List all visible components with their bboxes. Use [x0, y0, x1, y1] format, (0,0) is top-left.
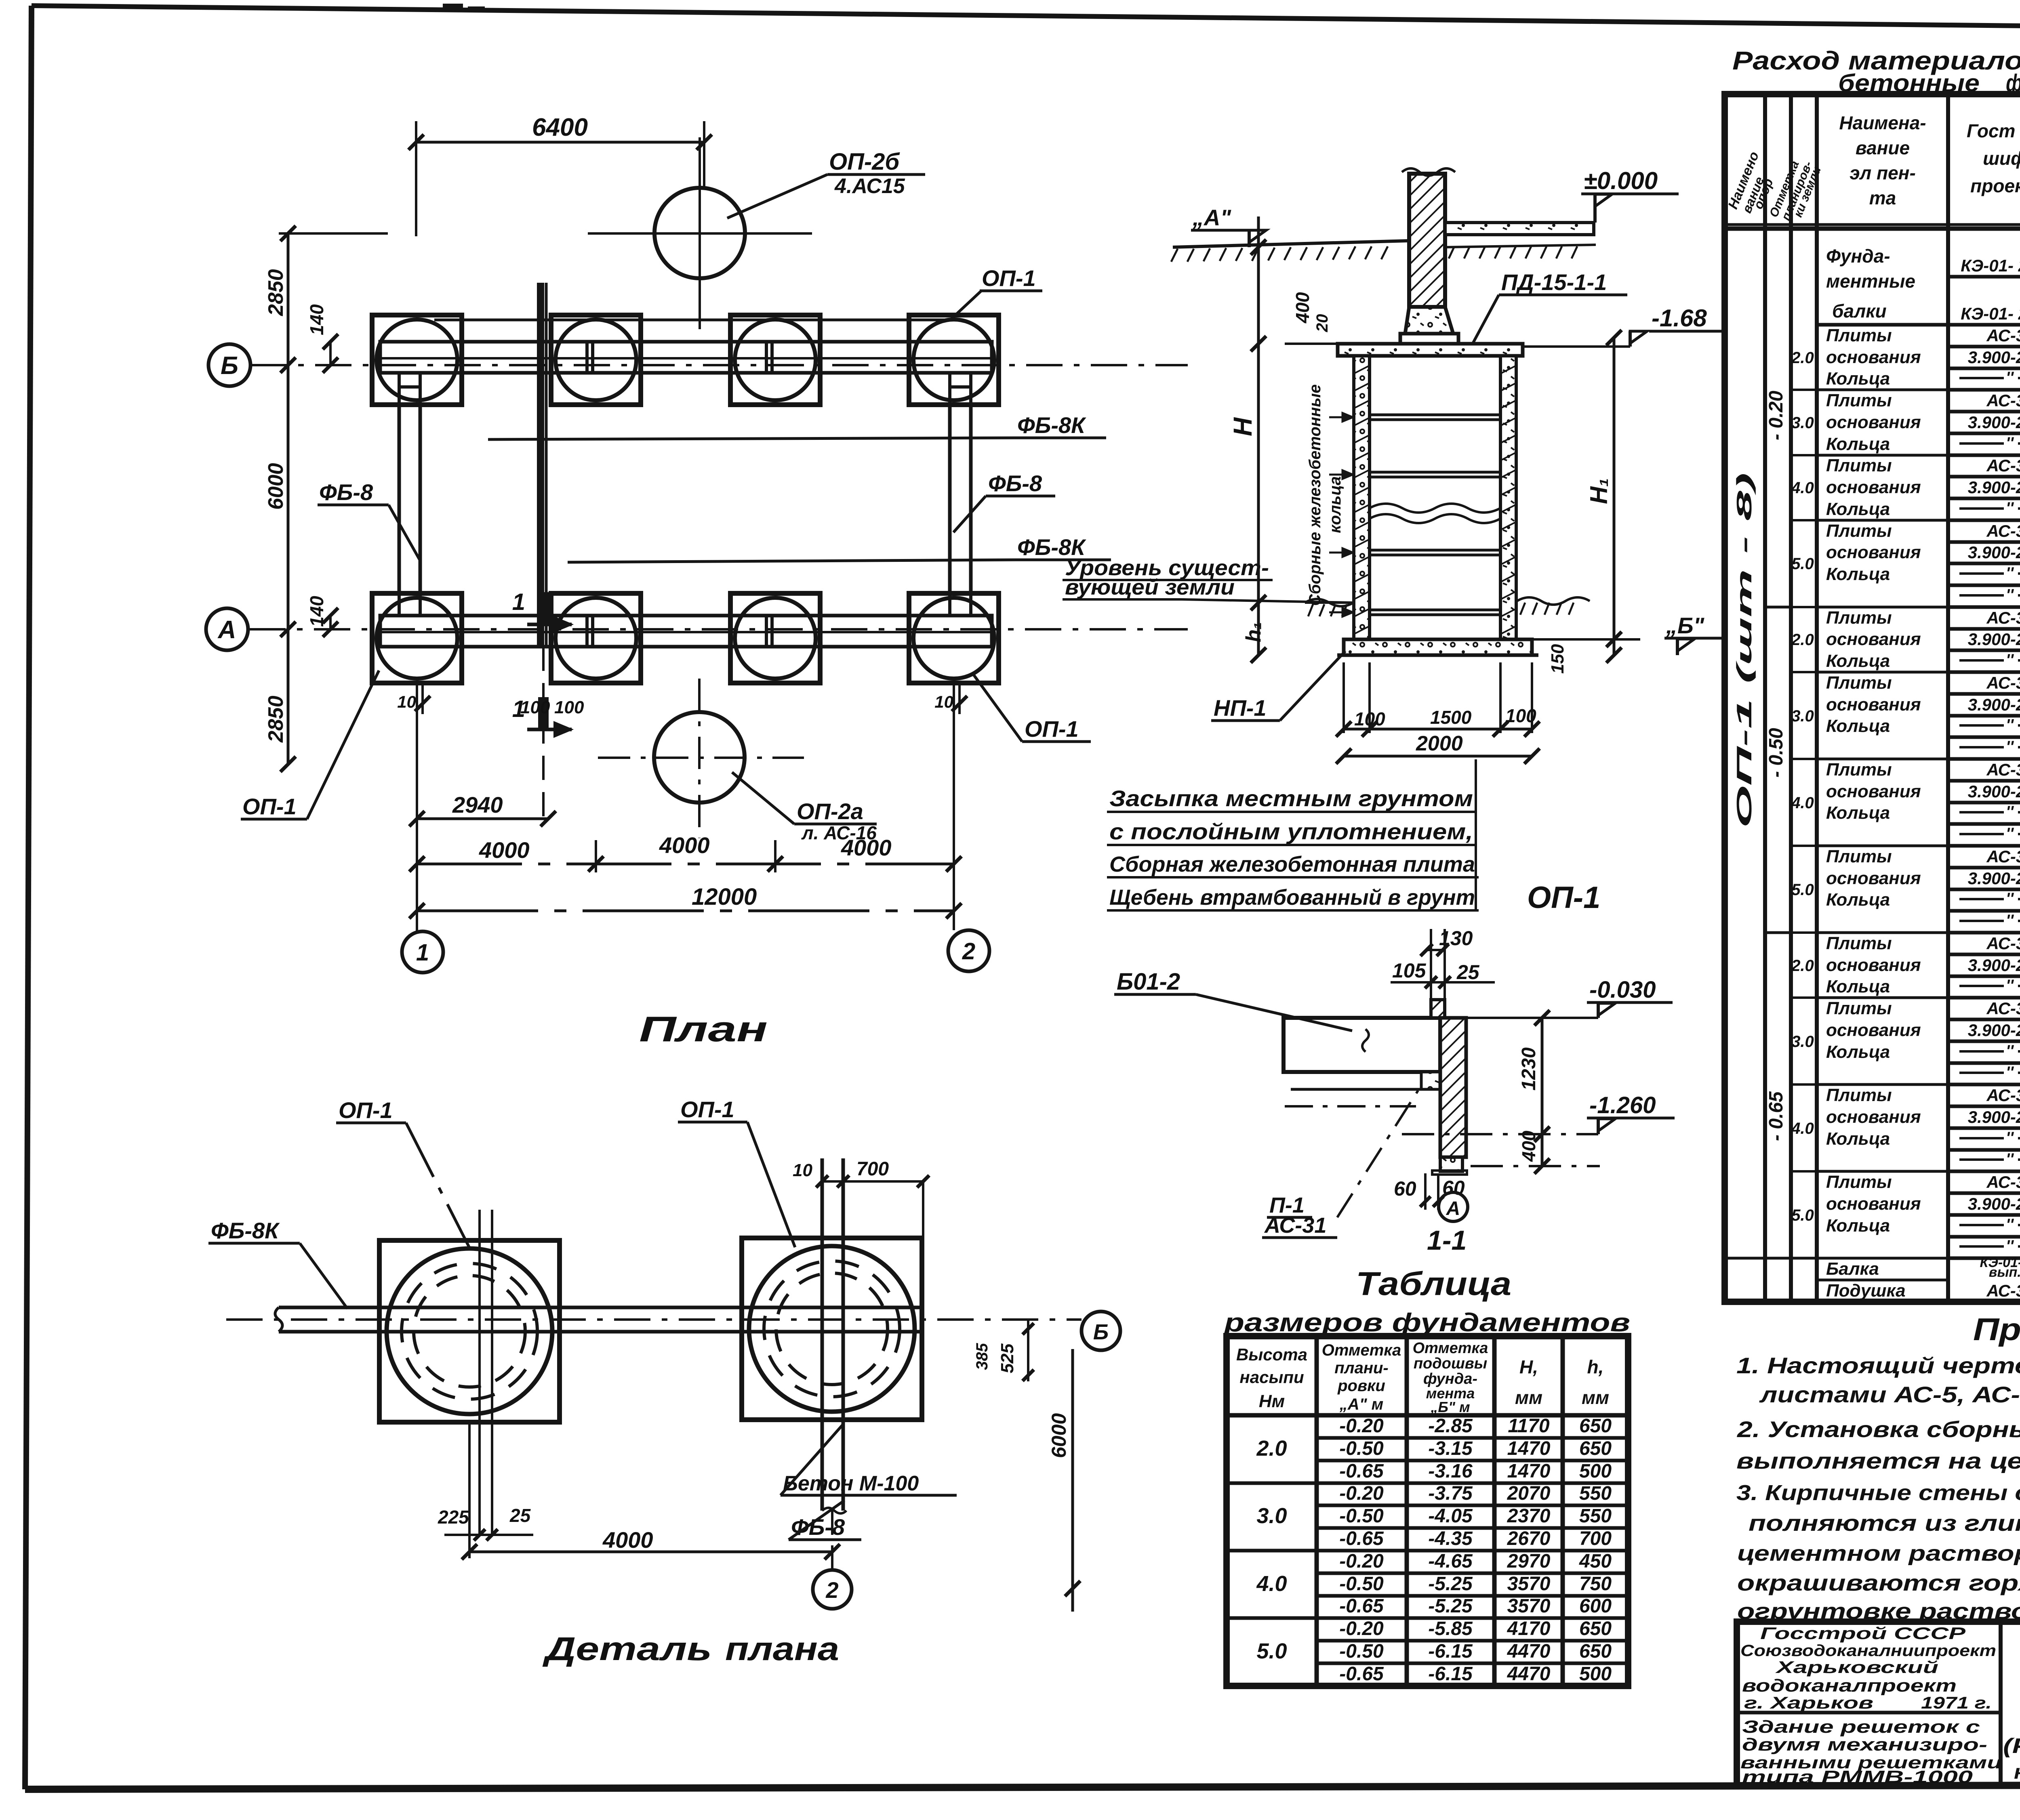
svg-text:385: 385 — [973, 1343, 991, 1370]
svg-text:'': '' — [2006, 1237, 2014, 1255]
svg-text:140: 140 — [306, 304, 327, 335]
svg-text:'': '' — [2006, 1150, 2014, 1168]
section bottom dims — [1342, 662, 1345, 733]
detail 1-1: dim 400 — [1541, 1134, 1544, 1166]
svg-text:1: 1 — [512, 589, 525, 615]
svg-text:1170: 1170 — [1508, 1415, 1550, 1437]
axis mark 2 detail — [813, 1570, 852, 1609]
svg-text:1. Настоящий чертеж расстатрив: 1. Настоящий чертеж расстатривать совмес… — [1736, 1353, 2020, 1378]
svg-text:'': '' — [2006, 1042, 2014, 1060]
svg-text:-4.65: -4.65 — [1428, 1551, 1473, 1572]
svg-text:окрашиваются горячим битумом: окрашиваются горячим битумом за два раза — [1737, 1570, 2020, 1595]
svg-text:ОП-1: ОП-1 — [982, 265, 1036, 291]
svg-text:основания: основания — [1826, 412, 1921, 432]
svg-text:АС-31: АС-31 — [1986, 847, 2020, 866]
svg-text:10: 10 — [397, 692, 416, 711]
svg-text:4000: 4000 — [841, 835, 892, 860]
svg-text:листами АС-5, АС-6.: листами АС-5, АС-6. — [1759, 1382, 2020, 1407]
svg-text:с послойным уплотнением,: с послойным уплотнением, — [1109, 819, 1473, 844]
svg-text:Кольца: Кольца — [1826, 890, 1890, 910]
svg-text:650: 650 — [1579, 1641, 1612, 1662]
beam B01-2 vertical — [537, 283, 544, 647]
svg-text:- 0.20: - 0.20 — [1765, 391, 1787, 440]
section: break squiggle — [1370, 504, 1500, 513]
svg-text:-1.260: -1.260 — [1589, 1092, 1656, 1118]
svg-text:Наимена-: Наимена- — [1839, 112, 1926, 133]
svg-text:Плиты: Плиты — [1826, 847, 1892, 866]
title block — [1737, 1622, 2020, 1785]
svg-text:ОП-1: ОП-1 — [242, 794, 297, 819]
svg-text:140: 140 — [306, 596, 327, 627]
svg-text:700: 700 — [856, 1158, 889, 1180]
svg-text:Плиты: Плиты — [1826, 673, 1892, 693]
dim 2940 — [417, 818, 548, 820]
svg-text:„А" м: „А" м — [1339, 1395, 1384, 1413]
svg-text:'': '' — [2006, 890, 2014, 908]
dim 4000 x3 — [417, 863, 954, 866]
svg-text:650: 650 — [1579, 1438, 1612, 1459]
svg-text:мм: мм — [1515, 1387, 1542, 1408]
svg-text:водоканалпроект: водоканалпроект — [1742, 1676, 1957, 1696]
svg-text:4000: 4000 — [479, 837, 530, 863]
svg-text:АС-31: АС-31 — [1986, 521, 2020, 540]
svg-text:'': '' — [2006, 1129, 2014, 1147]
svg-text:основания: основания — [1826, 542, 1921, 562]
svg-text:'': '' — [2006, 1216, 2014, 1234]
dim 4000 detail — [468, 1424, 471, 1558]
svg-text:-6.15: -6.15 — [1428, 1663, 1473, 1685]
svg-text:вующей земли: вующей земли — [1065, 575, 1235, 599]
svg-text:АС-31: АС-31 — [1986, 391, 2020, 410]
svg-text:АС-31: АС-31 — [1986, 326, 2020, 345]
svg-text:500: 500 — [1579, 1461, 1612, 1482]
svg-text:2940: 2940 — [452, 792, 503, 818]
svg-text:А: А — [1446, 1198, 1460, 1219]
svg-text:та: та — [1869, 187, 1896, 208]
svg-text:основания: основания — [1826, 1107, 1921, 1127]
svg-text:'': '' — [2006, 803, 2014, 821]
svg-text:Здание решеток с: Здание решеток с — [1742, 1717, 1980, 1737]
svg-text:Нм: Нм — [1259, 1391, 1285, 1411]
svg-text:105: 105 — [1392, 959, 1427, 982]
svg-text:-0.20: -0.20 — [1339, 1618, 1384, 1639]
svg-text:5.0: 5.0 — [1791, 555, 1814, 573]
svg-text:основания: основания — [1826, 955, 1921, 975]
detail plan: S1 centre lines — [478, 1210, 481, 1535]
svg-text:полняются из глиняного кирпича: полняются из глиняного кирпича марки М-7… — [1749, 1510, 2020, 1536]
svg-text:- 0.50: - 0.50 — [1765, 728, 1787, 778]
svg-text:КЭ-01- 238.1: КЭ-01- 238.1 — [1961, 256, 2020, 275]
svg-text:эл пен-: эл пен- — [1850, 162, 1916, 183]
svg-text:-5.85: -5.85 — [1428, 1618, 1473, 1639]
svg-text:ОП-2а: ОП-2а — [797, 799, 863, 824]
svg-text:Кольца: Кольца — [1826, 1042, 1890, 1062]
svg-text:-3.16: -3.16 — [1428, 1461, 1473, 1482]
svg-text:Союзводоканалниипроект: Союзводоканалниипроект — [1740, 1642, 1996, 1660]
detail 1-1: slab — [1284, 1018, 1440, 1072]
svg-text:Плиты: Плиты — [1826, 391, 1892, 410]
dim 10 left — [421, 683, 424, 714]
svg-text:3.900-2.8.5: 3.900-2.8.5 — [1968, 1108, 2020, 1126]
dim 6000 — [287, 365, 290, 629]
svg-text:1230: 1230 — [1518, 1047, 1540, 1091]
detail plan squares — [379, 1240, 560, 1422]
svg-text:Плиты: Плиты — [1826, 998, 1892, 1018]
dim 6400 — [416, 141, 704, 144]
svg-text:Кольца: Кольца — [1826, 977, 1890, 996]
detail plan: horizontal beam — [279, 1306, 923, 1309]
svg-text:АС-31: АС-31 — [1986, 934, 2020, 953]
svg-text:Плиты: Плиты — [1826, 456, 1892, 475]
svg-text:3.0: 3.0 — [1791, 1033, 1814, 1051]
svg-text:100: 100 — [1354, 708, 1385, 729]
svg-text:Высота: Высота — [1236, 1345, 1307, 1364]
section: top slab PD-15-1-1 — [1338, 344, 1523, 356]
svg-text:-0.65: -0.65 — [1339, 1528, 1384, 1549]
svg-text:'': '' — [2006, 564, 2014, 582]
svg-text:-3.15: -3.15 — [1428, 1438, 1473, 1459]
svg-text:1500: 1500 — [1430, 707, 1472, 728]
svg-text:100: 100 — [520, 698, 550, 717]
svg-text:3.900-2.8.5: 3.900-2.8.5 — [1968, 1021, 2020, 1040]
svg-text:2.0: 2.0 — [1791, 631, 1814, 649]
svg-text:4.0: 4.0 — [1256, 1572, 1287, 1596]
svg-text:'': '' — [2006, 912, 2014, 929]
svg-text:3.0: 3.0 — [1791, 414, 1814, 432]
svg-text:Кольца: Кольца — [1826, 716, 1890, 736]
svg-text:12000: 12000 — [692, 884, 757, 910]
svg-text:ОП-1 (шт - 8): ОП-1 (шт - 8) — [1733, 473, 1756, 828]
axis mark A — [206, 608, 248, 650]
detail 1-1: hatched wall — [1431, 1000, 1445, 1018]
svg-text:План: План — [639, 1009, 768, 1049]
svg-text:Кольца: Кольца — [1826, 803, 1890, 823]
svg-text:3.900-2.8.5: 3.900-2.8.5 — [1968, 782, 2020, 801]
svg-text:-0.65: -0.65 — [1339, 1461, 1384, 1482]
svg-text:Щебень втрамбованный в грунт: Щебень втрамбованный в грунт — [1109, 885, 1475, 910]
svg-text:-5.25: -5.25 — [1428, 1573, 1473, 1595]
svg-text:КЭ-01- 238.1: КЭ-01- 238.1 — [1961, 304, 2020, 323]
svg-text:Н,: Н, — [1519, 1356, 1538, 1377]
size table grid — [1227, 1336, 1628, 1686]
svg-text:Плиты: Плиты — [1826, 933, 1892, 953]
svg-text:-0.50: -0.50 — [1339, 1641, 1384, 1662]
svg-text:60: 60 — [1394, 1177, 1416, 1200]
svg-text:кольца: кольца — [1326, 476, 1344, 533]
svg-text:основания: основания — [1826, 868, 1921, 888]
svg-text:-2.85: -2.85 — [1428, 1415, 1473, 1437]
svg-text:-5.25: -5.25 — [1428, 1595, 1473, 1617]
svg-text:h,: h, — [1587, 1356, 1604, 1377]
svg-text:ровки: ровки — [1337, 1377, 1385, 1395]
section: left dim chain H — [1257, 216, 1260, 655]
svg-text:'': '' — [2006, 651, 2014, 669]
svg-text:'': '' — [2006, 434, 2014, 452]
axis mark B detail — [1082, 1311, 1120, 1350]
svg-text:-0.50: -0.50 — [1339, 1573, 1384, 1595]
svg-text:основания: основания — [1826, 1020, 1921, 1040]
detail 1-1: view mark A — [1439, 1192, 1468, 1221]
svg-text:2370: 2370 — [1507, 1505, 1551, 1527]
svg-text:проекта: проекта — [1970, 175, 2020, 196]
svg-text:(Расположение здания: (Расположение здания — [2003, 1734, 2020, 1758]
svg-text:-4.35: -4.35 — [1428, 1528, 1473, 1549]
axis mark 2 — [948, 930, 989, 971]
svg-text:плана: плана — [725, 1631, 839, 1667]
svg-text:„Б": „Б" — [1666, 613, 1705, 638]
svg-text:4000: 4000 — [659, 832, 710, 858]
right dim chain H1 — [1613, 338, 1616, 655]
svg-text:3.900-2.8.5: 3.900-2.8.5 — [1968, 1194, 2020, 1213]
svg-text:2850: 2850 — [264, 269, 288, 316]
svg-text:основания: основания — [1826, 347, 1921, 367]
svg-text:основания: основания — [1826, 477, 1921, 497]
svg-text:500: 500 — [1579, 1663, 1612, 1685]
svg-text:НП-1: НП-1 — [1214, 695, 1267, 721]
svg-text:ФБ-8К: ФБ-8К — [211, 1218, 280, 1243]
svg-text:1470: 1470 — [1507, 1438, 1551, 1459]
svg-text:3.900-2.8.5: 3.900-2.8.5 — [1968, 543, 2020, 562]
svg-text:2: 2 — [825, 1577, 838, 1603]
svg-text:Отметка: Отметка — [1413, 1340, 1488, 1357]
svg-text:550: 550 — [1579, 1483, 1612, 1504]
svg-text:Гост или: Гост или — [1967, 120, 2020, 141]
svg-text:6400: 6400 — [532, 113, 588, 141]
section: hatched column — [1409, 174, 1445, 307]
svg-text:Фунда-: Фунда- — [1826, 246, 1890, 267]
svg-text:Сборные железобетонные: Сборные железобетонные — [1306, 384, 1324, 606]
svg-text:АС-31: АС-31 — [1986, 673, 2020, 692]
detail 1-1: P-1 pad — [1421, 1072, 1440, 1089]
svg-text:150: 150 — [1548, 644, 1568, 674]
svg-text:3570: 3570 — [1507, 1573, 1551, 1595]
svg-text:А: А — [217, 616, 236, 644]
svg-text:25: 25 — [1456, 961, 1480, 984]
svg-text:-0.20: -0.20 — [1339, 1483, 1384, 1504]
svg-text:10: 10 — [793, 1160, 812, 1180]
svg-text:3.0: 3.0 — [1791, 707, 1814, 725]
svg-text:Плиты: Плиты — [1826, 521, 1892, 541]
detail 1-1: dim 1230 — [1541, 1018, 1544, 1134]
svg-text:шифр: шифр — [1983, 148, 2020, 169]
svg-text:550: 550 — [1579, 1505, 1612, 1527]
detail 1-1: layers — [1293, 1071, 1421, 1074]
svg-text:ФБ-8: ФБ-8 — [988, 471, 1042, 496]
dim 12000 — [417, 910, 954, 912]
svg-text:ОП-1: ОП-1 — [1527, 881, 1600, 915]
svg-text:Кольца: Кольца — [1826, 564, 1890, 584]
svg-text:2850: 2850 — [264, 696, 288, 743]
svg-text:'': '' — [2006, 1063, 2014, 1081]
svg-text:АС-31: АС-31 — [1986, 1281, 2020, 1300]
svg-text:1-1: 1-1 — [1427, 1225, 1467, 1256]
svg-text:основания: основания — [1826, 695, 1921, 715]
svg-text:-0.20: -0.20 — [1339, 1415, 1384, 1437]
svg-text:насыпи: насыпи — [1239, 1368, 1304, 1387]
svg-text:'': '' — [2006, 825, 2014, 843]
svg-text:Примечания:: Примечания: — [1973, 1311, 2020, 1347]
svg-text:ОП-1: ОП-1 — [1025, 716, 1079, 742]
svg-text:Таблица: Таблица — [1356, 1265, 1511, 1302]
svg-text:5.0: 5.0 — [1791, 1206, 1814, 1224]
svg-text:10: 10 — [934, 692, 953, 711]
svg-text:2970: 2970 — [1507, 1551, 1551, 1572]
svg-text:Б01-2: Б01-2 — [1117, 969, 1180, 995]
svg-text:4470: 4470 — [1507, 1663, 1551, 1685]
svg-text:- 0.65: - 0.65 — [1765, 1091, 1787, 1141]
svg-text:Балка: Балка — [1826, 1259, 1879, 1279]
svg-text:3.900-2.8.5: 3.900-2.8.5 — [1968, 869, 2020, 888]
dim 140 bottom — [329, 616, 332, 629]
svg-text:650: 650 — [1579, 1618, 1612, 1639]
svg-text:1470: 1470 — [1507, 1461, 1551, 1482]
dim 2850 top — [287, 233, 290, 365]
svg-text:3.900-2.8.5: 3.900-2.8.5 — [1968, 478, 2020, 497]
svg-text:-4.05: -4.05 — [1428, 1505, 1473, 1527]
svg-text:4470: 4470 — [1507, 1641, 1551, 1662]
svg-text:Сборная железобетонная плита: Сборная железобетонная плита — [1109, 852, 1475, 876]
svg-text:Кольца: Кольца — [1826, 1216, 1890, 1236]
svg-text:Деталь: Деталь — [542, 1631, 712, 1667]
section: bottom slab NP-1 — [1344, 639, 1532, 655]
svg-text:400: 400 — [1518, 1131, 1539, 1162]
svg-text:вание: вание — [1856, 137, 1910, 158]
svg-text:двумя механизиро-: двумя механизиро- — [1742, 1735, 1987, 1755]
svg-text:-1.68: -1.68 — [1652, 305, 1707, 332]
svg-text:-0.65: -0.65 — [1339, 1663, 1384, 1685]
svg-text:25: 25 — [509, 1505, 531, 1526]
svg-text:525: 525 — [997, 1343, 1017, 1373]
svg-text:-0.20: -0.20 — [1339, 1551, 1384, 1572]
svg-text:2.0: 2.0 — [1791, 349, 1814, 367]
svg-text:АС-31: АС-31 — [1986, 608, 2020, 627]
svg-text:подошвы: подошвы — [1414, 1355, 1487, 1372]
svg-text:'': '' — [2006, 499, 2014, 517]
svg-text:-6.15: -6.15 — [1428, 1641, 1473, 1662]
svg-text:'': '' — [2006, 369, 2014, 387]
svg-text:Плиты: Плиты — [1826, 608, 1892, 628]
svg-text:'': '' — [2006, 586, 2014, 604]
svg-text:20: 20 — [1313, 314, 1331, 333]
svg-text:600: 600 — [1579, 1595, 1612, 1617]
svg-text:-0.65: -0.65 — [1339, 1595, 1384, 1617]
svg-text:ОП-2б: ОП-2б — [829, 149, 900, 175]
dim 140 top — [329, 342, 332, 365]
svg-text:размеров фундаментов: размеров фундаментов — [1223, 1308, 1630, 1337]
svg-text:100: 100 — [554, 698, 584, 717]
svg-text:2.0: 2.0 — [1256, 1436, 1287, 1461]
plan view: foundation plan — [372, 315, 462, 405]
svg-text:Кольца: Кольца — [1826, 651, 1890, 671]
svg-text:100: 100 — [1505, 705, 1536, 726]
column foot — [1405, 307, 1453, 334]
svg-text:типа РММВ-1000: типа РММВ-1000 — [1742, 1767, 1973, 1787]
svg-text:Кольца: Кольца — [1826, 369, 1890, 389]
svg-text:225: 225 — [438, 1507, 469, 1528]
svg-text:Плиты: Плиты — [1826, 1172, 1892, 1192]
svg-text:±0.000: ±0.000 — [1584, 167, 1658, 194]
svg-text:основания: основания — [1826, 629, 1921, 649]
svg-text:h₁: h₁ — [1242, 622, 1265, 642]
svg-text:Засыпка местным грунтом: Засыпка местным грунтом — [1109, 786, 1473, 811]
svg-text:2000: 2000 — [1416, 732, 1463, 755]
svg-text:4.0: 4.0 — [1791, 479, 1814, 497]
svg-text:-0.50: -0.50 — [1339, 1438, 1384, 1459]
svg-text:5.0: 5.0 — [1256, 1639, 1287, 1663]
svg-text:-3.75: -3.75 — [1428, 1483, 1473, 1504]
svg-text:-0.030: -0.030 — [1589, 977, 1656, 1003]
svg-text:400: 400 — [1292, 292, 1313, 324]
svg-text:Отметка: Отметка — [1322, 1341, 1401, 1359]
pillar OP-2b circle — [654, 188, 745, 278]
svg-text:450: 450 — [1579, 1551, 1612, 1572]
section cut 1-1 — [538, 592, 549, 624]
svg-text:2.0: 2.0 — [1791, 957, 1814, 975]
svg-text:5.0: 5.0 — [1791, 881, 1814, 899]
svg-text:Подушка: Подушка — [1826, 1281, 1906, 1301]
dim 6000 detail — [1071, 1349, 1074, 1612]
svg-text:4000: 4000 — [602, 1527, 653, 1553]
svg-text:„А": „А" — [1192, 205, 1231, 230]
svg-text:Плиты: Плиты — [1826, 1085, 1892, 1105]
svg-text:Н₁: Н₁ — [1585, 478, 1612, 504]
svg-text:2: 2 — [962, 938, 975, 965]
svg-text:Харьковский: Харьковский — [1775, 1658, 1938, 1677]
svg-text:балки: балки — [1832, 301, 1887, 322]
svg-text:ФБ-8: ФБ-8 — [319, 479, 373, 505]
svg-text:АС-31: АС-31 — [1986, 760, 2020, 779]
svg-text:Н: Н — [1228, 417, 1257, 436]
svg-text:3.900-2.8.5: 3.900-2.8.5 — [1968, 695, 2020, 714]
svg-text:г. Харьков: г. Харьков — [1744, 1693, 1873, 1712]
svg-text:АС-31: АС-31 — [1986, 1173, 2020, 1192]
dim 10 right — [958, 683, 961, 714]
svg-text:Кольца: Кольца — [1826, 499, 1890, 519]
svg-text:плани-: плани- — [1334, 1359, 1388, 1377]
svg-text:Б: Б — [1093, 1320, 1109, 1344]
svg-text:Госстрой СССР: Госстрой СССР — [1760, 1624, 1966, 1643]
svg-text:Кольца: Кольца — [1826, 434, 1890, 454]
svg-text:Плиты: Плиты — [1826, 760, 1892, 780]
svg-text:вып. 1: вып. 1 — [1989, 1265, 2020, 1280]
svg-text:'': '' — [2006, 716, 2014, 734]
svg-text:2. Установка сборных железобет: 2. Установка сборных железобетонных коле… — [1737, 1416, 2020, 1442]
svg-text:4170: 4170 — [1507, 1618, 1551, 1639]
svg-text:3.900-2.8.5: 3.900-2.8.5 — [1968, 630, 2020, 649]
svg-text:6000: 6000 — [264, 463, 288, 510]
detail plan: vertical beam at S2 — [821, 1158, 824, 1511]
svg-text:ОП-1: ОП-1 — [339, 1097, 393, 1123]
svg-text:основания: основания — [1826, 1194, 1921, 1214]
svg-text:3. Кирпичные стены от отметки: 3. Кирпичные стены от отметки -1.26 до о… — [1736, 1481, 2020, 1505]
svg-text:2070: 2070 — [1507, 1483, 1551, 1504]
svg-text:3.900-2.8.5: 3.900-2.8.5 — [1968, 348, 2020, 367]
svg-text:700: 700 — [1579, 1528, 1612, 1549]
svg-text:4.0: 4.0 — [1791, 1120, 1814, 1137]
svg-text:'': '' — [2006, 977, 2014, 994]
svg-text:АС-31: АС-31 — [1986, 999, 2020, 1018]
svg-text:3570: 3570 — [1507, 1595, 1551, 1617]
svg-text:650: 650 — [1579, 1415, 1612, 1437]
svg-text:1971 г.: 1971 г. — [1921, 1693, 1992, 1712]
dim 2850 bottom — [287, 629, 290, 764]
section: right floor slab — [1445, 223, 1594, 235]
svg-text:3.900-2.8.5: 3.900-2.8.5 — [1968, 956, 2020, 975]
pillar OP-2a circle — [654, 712, 745, 803]
svg-text:ОП-1: ОП-1 — [680, 1097, 734, 1122]
svg-text:Б: Б — [221, 352, 238, 380]
big table grid — [1725, 94, 2020, 1302]
